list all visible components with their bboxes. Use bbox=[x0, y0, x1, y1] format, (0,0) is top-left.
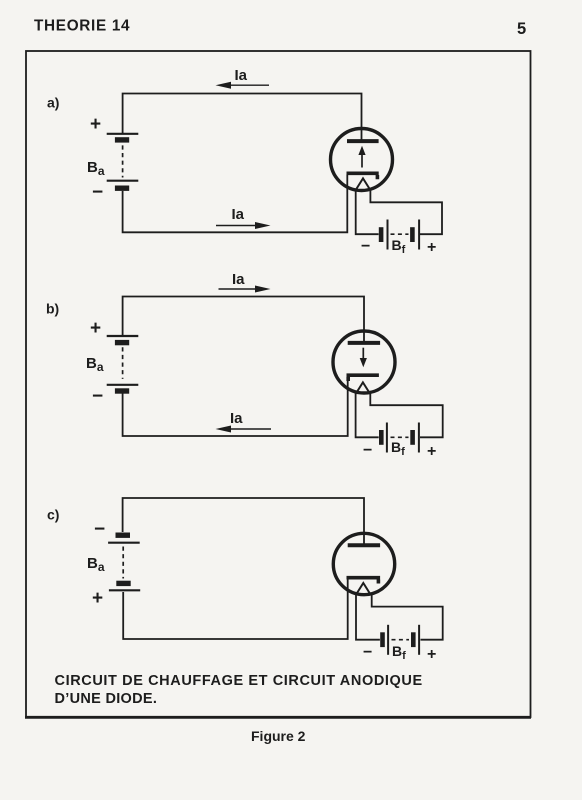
svg-text:−: − bbox=[363, 442, 372, 459]
svg-text:Bf: Bf bbox=[392, 643, 406, 662]
current arrow Ia bottom (circuit b, pointing left) bbox=[216, 426, 272, 433]
svg-text:+: + bbox=[90, 114, 101, 135]
vacuum tube diode envelope (circuit a) bbox=[331, 129, 393, 191]
svg-text:+: + bbox=[427, 443, 436, 460]
svg-text:b): b) bbox=[46, 301, 59, 317]
wire: filament right leg to Bf+ (circuit a) bbox=[370, 189, 442, 234]
current arrow Ia top (circuit b, pointing right) bbox=[219, 286, 271, 293]
wire: Ba- down and bottom return wire to cathode (circuit b) bbox=[123, 377, 348, 436]
svg-text:−: − bbox=[363, 644, 372, 661]
svg-text:CIRCUIT DE CHAUFFAGE ET CIRCUI: CIRCUIT DE CHAUFFAGE ET CIRCUIT ANODIQUE bbox=[55, 673, 423, 689]
cathode plate with right hook (circuit a) bbox=[347, 173, 379, 179]
svg-text:Ia: Ia bbox=[230, 410, 243, 427]
vacuum tube diode envelope (circuit c) bbox=[333, 533, 394, 594]
anode plate (circuit c) bbox=[348, 543, 380, 547]
svg-text:−: − bbox=[92, 182, 103, 203]
anode plate (circuit b) bbox=[348, 341, 380, 345]
svg-text:Ia: Ia bbox=[232, 206, 245, 223]
svg-text:−: − bbox=[94, 519, 105, 540]
svg-text:Bf: Bf bbox=[392, 237, 406, 256]
frame bottom edge (thicker) bbox=[25, 716, 531, 719]
current arrow Ia top (circuit a, pointing left) bbox=[216, 82, 270, 89]
cathode plate with left hook (circuit b) bbox=[347, 375, 379, 381]
svg-text:−: − bbox=[92, 386, 103, 407]
electron flow arrow up (circuit a) bbox=[358, 146, 365, 168]
wire: Ba+ up and top wire to anode (circuit b) bbox=[123, 297, 364, 343]
svg-text:D’UNE DIODE.: D’UNE DIODE. bbox=[55, 691, 158, 707]
battery Bf (circuit a) bbox=[381, 220, 419, 250]
svg-text:THEORIE 14: THEORIE 14 bbox=[34, 18, 130, 35]
battery Ba reversed (circuit c) bbox=[108, 535, 140, 590]
svg-text:Ia: Ia bbox=[235, 67, 248, 84]
battery Bf (circuit c) bbox=[383, 625, 420, 655]
anode plate (circuit a) bbox=[347, 139, 379, 143]
svg-text:+: + bbox=[90, 318, 101, 339]
svg-text:Ba: Ba bbox=[87, 159, 105, 178]
filament heater (circuit a) bbox=[356, 178, 371, 190]
wire: filament left leg to Bf- (circuit b) bbox=[356, 393, 379, 437]
figure border frame bbox=[26, 51, 531, 717]
svg-text:Ba: Ba bbox=[86, 355, 104, 374]
wire: filament right leg to Bf+ (circuit b) bbox=[370, 393, 442, 437]
current arrow Ia bottom (circuit a, pointing right) bbox=[216, 222, 271, 229]
svg-text:+: + bbox=[427, 646, 436, 663]
wire: Ba+ up and top wire to anode (circuit a) bbox=[123, 94, 362, 141]
battery Bf (circuit b) bbox=[381, 423, 419, 453]
svg-text:Figure 2: Figure 2 bbox=[251, 728, 306, 744]
vacuum tube diode envelope (circuit b) bbox=[333, 331, 395, 393]
svg-text:+: + bbox=[427, 239, 436, 256]
svg-text:Ia: Ia bbox=[232, 271, 245, 288]
svg-text:a): a) bbox=[47, 95, 59, 111]
svg-text:Ba: Ba bbox=[87, 555, 105, 574]
filament heater (circuit b) bbox=[356, 382, 371, 394]
svg-text:Bf: Bf bbox=[391, 439, 405, 458]
battery Ba (circuit b) bbox=[107, 336, 139, 391]
battery Ba (circuit a) bbox=[107, 134, 139, 188]
wire: Ba+ down and bottom return wire to cathode (circuit c) bbox=[123, 579, 348, 639]
svg-text:5: 5 bbox=[517, 20, 526, 38]
wire: filament left leg to Bf- (circuit a) bbox=[356, 189, 379, 234]
wire: Ba- down and bottom return wire to cathode (circuit a) bbox=[123, 175, 348, 233]
electron flow arrow down (circuit b) bbox=[360, 348, 367, 368]
svg-text:c): c) bbox=[47, 507, 59, 523]
cathode plate (circuit c) bbox=[347, 578, 381, 584]
svg-text:+: + bbox=[92, 588, 103, 609]
wire: filament right leg to Bf+ (circuit c) bbox=[372, 594, 443, 640]
svg-text:−: − bbox=[361, 238, 370, 255]
filament heater (circuit c) bbox=[356, 583, 371, 595]
wire: filament left leg to Bf- (circuit c) bbox=[356, 594, 380, 640]
wire: Ba- up and top wire to anode (circuit c) bbox=[123, 498, 364, 544]
